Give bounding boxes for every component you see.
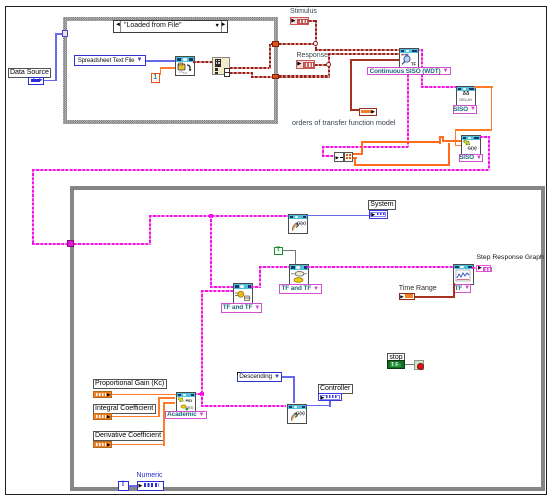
- svg-text:G(s): G(s): [297, 221, 306, 226]
- svg-text:PID: PID: [185, 398, 192, 403]
- svg-text:TF: TF: [411, 61, 417, 66]
- svg-text:G(s): G(s): [468, 146, 478, 151]
- svg-text:G(s): G(s): [296, 410, 305, 415]
